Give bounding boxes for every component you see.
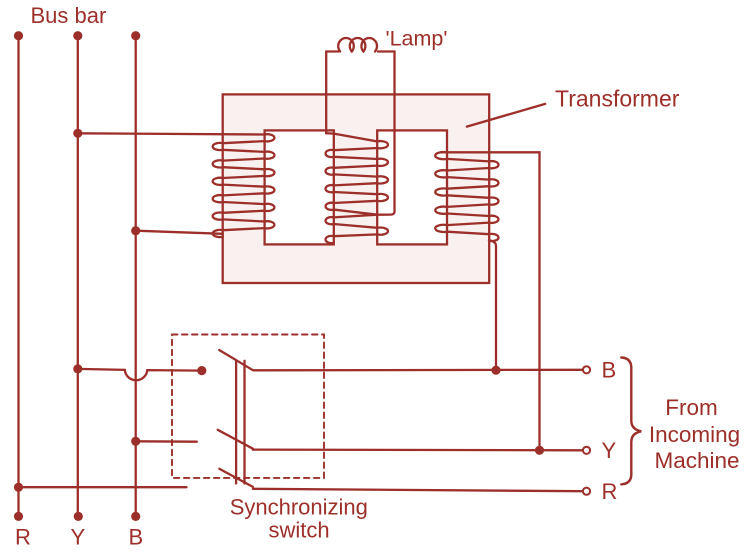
junction dot R bus / pole 3 wire xyxy=(14,483,23,492)
switch gang bar left xyxy=(235,361,237,484)
wire Y bus to switch pole 1 (hops over B bus) xyxy=(78,369,202,380)
svg-text:switch: switch xyxy=(268,518,329,543)
svg-text:Y: Y xyxy=(71,525,86,550)
wire right winding bottom to B incoming row xyxy=(489,240,496,370)
transformer T1 core right window xyxy=(377,130,447,244)
wire switch pole 1 to terminal B xyxy=(253,369,581,372)
junction dot B bus / pole 2 wire xyxy=(131,437,140,446)
bus bar conductor Y xyxy=(77,36,79,517)
lamp L1 coil xyxy=(338,38,377,52)
junction dot pole-2 row / right winding top wire xyxy=(535,446,544,455)
svg-text:Synchronizing: Synchronizing xyxy=(230,494,368,519)
switch pole 3 blade xyxy=(219,469,253,487)
bus bar Y bottom terminal dot xyxy=(74,512,83,521)
transformer T1 middle (lamp) winding xyxy=(326,133,388,243)
svg-text:'Lamp': 'Lamp' xyxy=(386,27,448,51)
junction dot B bus / winding wire xyxy=(131,226,140,235)
terminal Y (incoming machine) xyxy=(583,447,590,454)
svg-text:Incoming: Incoming xyxy=(649,422,740,447)
transformer T1 right (secondary) winding xyxy=(435,152,498,241)
wire switch pole 2 to terminal Y xyxy=(253,448,582,451)
transformer T1 left (primary) winding xyxy=(213,134,275,237)
wire R bus to switch pole 3 xyxy=(19,486,187,488)
terminal R (incoming machine) xyxy=(583,488,590,495)
svg-text:Y: Y xyxy=(602,438,617,463)
svg-text:Transformer: Transformer xyxy=(555,85,680,111)
bus bar B bottom terminal dot xyxy=(131,512,140,521)
switch gang bar right xyxy=(243,361,245,484)
svg-text:Machine: Machine xyxy=(654,448,739,473)
transformer label leader line xyxy=(467,104,545,127)
junction dot pole-1 row / right winding wire xyxy=(491,366,500,375)
svg-text:B: B xyxy=(129,525,144,550)
switch pole 1 blade xyxy=(219,350,253,370)
svg-text:R: R xyxy=(15,525,31,550)
bus bar conductor B xyxy=(135,36,137,517)
junction dot Y bus / pole 1 wire xyxy=(73,364,82,373)
svg-text:R: R xyxy=(602,479,618,504)
terminal B (incoming machine) xyxy=(583,366,590,373)
svg-text:From: From xyxy=(665,395,718,420)
switch pole 1 fixed contact dot xyxy=(197,366,206,375)
junction dot Y bus / winding wire xyxy=(73,129,82,138)
bus bar R bottom terminal dot xyxy=(14,512,23,521)
wire switch pole 3 to terminal R xyxy=(253,489,582,491)
bus bar B top terminal dot xyxy=(131,31,140,40)
bus bar R top terminal dot xyxy=(14,31,23,40)
lamp wire left (middle winding top to lamp) xyxy=(326,52,338,134)
svg-text:B: B xyxy=(602,358,617,383)
brace grouping incoming terminals xyxy=(621,358,641,485)
bus bar conductor R xyxy=(17,36,19,517)
switch pole 2 blade xyxy=(218,430,253,450)
wire right winding top to Y incoming row xyxy=(441,152,540,450)
wire Y bus to left winding top xyxy=(78,133,265,134)
bus bar Y top terminal dot xyxy=(73,31,82,40)
svg-text:Bus bar: Bus bar xyxy=(31,3,107,28)
transformer T1 core body xyxy=(223,94,490,283)
wire B bus to left winding bottom xyxy=(136,231,223,234)
lamp wire right (lamp to middle winding tap) xyxy=(377,52,394,215)
wire B bus to switch pole 2 xyxy=(136,440,197,443)
transformer T1 core left window xyxy=(265,130,334,244)
synchronizing switch enclosure (dashed) xyxy=(172,335,324,478)
